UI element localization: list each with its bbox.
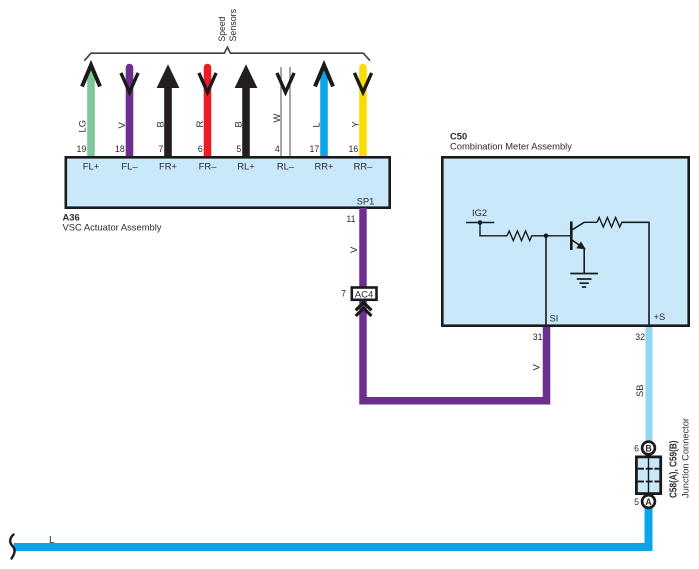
wire FL+ speed sensor (LG)	[77, 65, 101, 156]
wire resistor to base node	[532, 235, 547, 237]
svg-text:+S: +S	[654, 311, 666, 322]
svg-text:R: R	[194, 121, 205, 128]
junction connector C58(A), C59(B)	[636, 456, 661, 494]
svg-text:32: 32	[635, 332, 645, 342]
svg-text:7: 7	[158, 144, 163, 154]
wire L from junction connector A to left edge	[14, 507, 649, 547]
svg-text:A: A	[645, 497, 652, 507]
resistor (base)	[507, 231, 532, 241]
svg-text:V: V	[348, 246, 359, 253]
svg-text:B: B	[645, 444, 651, 454]
svg-text:B: B	[232, 121, 243, 127]
svg-text:VSC Actuator Assembly: VSC Actuator Assembly	[63, 222, 162, 233]
wire resistor to +S pin 32	[622, 222, 650, 324]
svg-text:Combination Meter Assembly: Combination Meter Assembly	[450, 141, 572, 152]
svg-text:7: 7	[341, 289, 346, 299]
transistor Q1 (NPN)	[571, 221, 586, 250]
svg-text:B: B	[154, 121, 165, 127]
svg-text:Speed: Speed	[216, 17, 227, 42]
ground	[570, 274, 598, 288]
svg-text:FL+: FL+	[83, 161, 100, 172]
svg-text:6: 6	[198, 144, 203, 154]
svg-text:IG2: IG2	[472, 207, 487, 218]
svg-text:FR–: FR–	[199, 161, 217, 172]
svg-text:Junction Connector: Junction Connector	[681, 417, 692, 498]
speed sensors brace bracket	[84, 47, 370, 61]
connector chevrons below AC4	[356, 303, 372, 311]
wire SB from C50 pin 32 to junction connector B	[646, 327, 653, 443]
svg-text:Sensors: Sensors	[227, 9, 238, 42]
wire RL- speed sensor (W)	[271, 67, 294, 156]
svg-text:18: 18	[115, 144, 125, 154]
wire RL+ speed sensor (B)	[232, 64, 257, 156]
svg-text:11: 11	[346, 214, 355, 224]
connector box A36 VSC Actuator Assembly	[66, 157, 390, 207]
svg-text:17: 17	[310, 144, 320, 154]
svg-text:16: 16	[349, 144, 359, 154]
wire node to transistor base	[546, 235, 571, 237]
svg-text:LG: LG	[77, 120, 88, 133]
continuation squiggle	[10, 535, 14, 559]
wire collector to resistor	[584, 221, 597, 223]
svg-text:L: L	[49, 535, 55, 546]
node dot (SI junction)	[544, 234, 549, 239]
svg-text:V: V	[116, 122, 127, 129]
svg-text:W: W	[271, 114, 282, 123]
svg-text:31: 31	[533, 332, 543, 342]
wire V from A36 pin 11 to C50 pin 31	[363, 208, 547, 401]
wire IG2 to resistor	[480, 223, 507, 236]
svg-text:19: 19	[77, 144, 87, 154]
wire RR+ speed sensor (L)	[310, 65, 333, 156]
label Speed Sensors	[216, 9, 238, 42]
wire FR+ speed sensor (B)	[154, 64, 179, 156]
svg-text:RR+: RR+	[314, 161, 334, 172]
svg-text:RL–: RL–	[277, 161, 295, 172]
svg-text:AC4: AC4	[355, 289, 373, 300]
pin labels FL+ FL- FR+ FR- RL+ RL- RR+ RR-	[83, 161, 373, 172]
connector AC4	[341, 288, 376, 301]
svg-text:5: 5	[236, 144, 241, 154]
resistor (collector)	[597, 218, 622, 228]
svg-text:FL–: FL–	[121, 161, 138, 172]
svg-text:L: L	[310, 122, 321, 127]
svg-text:C58(A), C59(B): C58(A), C59(B)	[669, 441, 680, 499]
svg-text:5: 5	[634, 497, 639, 507]
wire emitter to ground	[583, 249, 585, 274]
svg-text:RR–: RR–	[354, 161, 374, 172]
svg-text:Y: Y	[349, 121, 360, 128]
svg-text:SB: SB	[634, 384, 645, 397]
terminal B circle	[642, 442, 655, 455]
svg-text:4: 4	[275, 144, 280, 154]
wire FL- speed sensor (V)	[115, 68, 138, 157]
svg-text:SP1: SP1	[357, 196, 375, 207]
svg-text:SI: SI	[550, 313, 559, 324]
wire base node to SI pin 31	[545, 236, 547, 325]
svg-text:V: V	[531, 364, 542, 371]
wire RR- speed sensor (Y)	[349, 68, 372, 157]
wire FR- speed sensor (R)	[194, 68, 216, 157]
svg-text:RL+: RL+	[237, 161, 255, 172]
node dot on IG2	[478, 220, 483, 225]
svg-text:6: 6	[634, 444, 639, 454]
box C50 Combination Meter Assembly	[442, 157, 688, 325]
svg-text:FR+: FR+	[159, 161, 177, 172]
terminal A circle	[642, 495, 655, 508]
